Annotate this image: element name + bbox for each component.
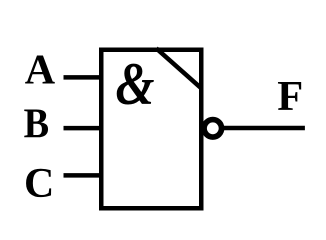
svg-text:B: B xyxy=(24,100,49,147)
svg-text:C: C xyxy=(24,161,54,207)
svg-text:F: F xyxy=(277,73,303,120)
svg-text:A: A xyxy=(25,48,56,94)
svg-text:&: & xyxy=(116,51,155,117)
